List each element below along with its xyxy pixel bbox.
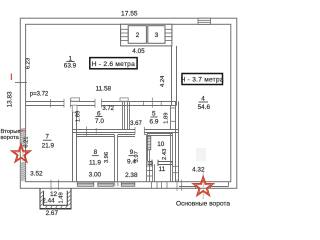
room7 right wall [72, 112, 74, 182]
svg-text:11.9: 11.9 [89, 159, 101, 166]
door jamb ticks W1 [51, 98, 162, 108]
svg-text:2.38: 2.38 [125, 172, 138, 179]
wall W2 rooms 5-6 bottom [73, 130, 179, 133]
svg-text:3.96: 3.96 [104, 152, 110, 163]
room 8 walls [76, 135, 118, 182]
window bottom 3 [121, 182, 135, 186]
witness line through main gate star [202, 172, 204, 199]
room 9 walls [118, 135, 150, 182]
gate ledge bottom wall [179, 182, 229, 189]
svg-text:1.89: 1.89 [76, 111, 82, 122]
svg-text:6.21: 6.21 [23, 136, 29, 147]
svg-text:8: 8 [94, 149, 98, 156]
dark partition left of room 10 [147, 136, 150, 150]
height label box room 1 [90, 58, 137, 69]
svg-text:3.00: 3.00 [89, 171, 102, 178]
room 11 left wall [154, 164, 156, 182]
svg-text:3.97: 3.97 [134, 151, 140, 162]
ghost rectangle room 4 [196, 148, 206, 162]
door jamb ticks W2 [87, 127, 145, 136]
svg-text:2: 2 [136, 32, 140, 39]
wall W1 horizontal [26, 102, 177, 106]
svg-text:3.72: 3.72 [102, 106, 114, 112]
annex hatch [40, 191, 71, 209]
pilaster up at x124 [120, 98, 128, 101]
window bottom 1 [77, 182, 94, 186]
svg-text:Основные ворота: Основные ворота [176, 201, 230, 208]
stairs right of room 3 [165, 29, 172, 40]
room 3 box [148, 26, 165, 44]
wall between room5 area and room4 lower [175, 101, 177, 182]
wall between rooms 10 and 11 [148, 160, 173, 166]
svg-text:7.0: 7.0 [95, 118, 104, 125]
svg-text:3: 3 [155, 32, 159, 39]
room 10 walls [147, 133, 172, 182]
svg-text:10: 10 [157, 141, 165, 148]
svg-text:ворота: ворота [1, 135, 20, 141]
inner wall face [26, 24, 231, 181]
svg-text:63.9: 63.9 [64, 63, 77, 70]
svg-text:11.58: 11.58 [96, 86, 112, 93]
svg-text:Вторые: Вторые [1, 129, 21, 135]
room 5 right wall [170, 106, 172, 130]
svg-text:1.49: 1.49 [58, 192, 64, 203]
stairs left of room 2 [121, 29, 129, 40]
svg-text:11: 11 [159, 166, 166, 173]
svg-text:3.67: 3.67 [130, 121, 142, 127]
window bottom 2 [98, 182, 114, 186]
room 6 right wall [122, 101, 124, 129]
svg-text:17.55: 17.55 [121, 10, 138, 17]
svg-text:6.23: 6.23 [26, 58, 32, 69]
svg-text:4.05: 4.05 [132, 48, 145, 55]
annex room 12 walls [40, 188, 71, 209]
gate ledge line left wall [22, 147, 24, 162]
second gate label [18, 130, 26, 132]
room 5 left wall [127, 101, 129, 129]
outer wall face [20, 18, 237, 188]
svg-text:1.89: 1.89 [164, 113, 170, 124]
porch cells below room 11 [115, 182, 167, 189]
svg-text:6.9: 6.9 [150, 119, 159, 126]
stairs shaft between rooms 9 and 11 [147, 161, 153, 181]
left wall hatch upper [21, 128, 25, 146]
tick left wall y82 [15, 82, 27, 84]
pilaster up at x75 [71, 98, 80, 101]
svg-text:7: 7 [45, 134, 49, 141]
annex door ticks on bottom wall [51, 180, 59, 191]
wall between room1 and room4 upper [171, 46, 173, 105]
pilaster down room7 wall head [72, 105, 77, 112]
height label box room 4 [182, 74, 223, 85]
svg-text:5: 5 [152, 111, 156, 118]
left wall hatch lower [21, 162, 25, 182]
window top wall [198, 18, 211, 24]
svg-text:p=3.72: p=3.72 [30, 91, 49, 97]
svg-text:4.24: 4.24 [160, 75, 166, 87]
svg-text:21.9: 21.9 [42, 143, 55, 150]
svg-text:54.6: 54.6 [198, 104, 211, 111]
red tick left of wall [10, 74, 12, 81]
rooms 2-3 block outer [121, 24, 172, 46]
svg-text:2.67: 2.67 [46, 210, 59, 217]
svg-text:3.52: 3.52 [30, 171, 43, 178]
room 2 box [128, 26, 146, 44]
second gate star [11, 144, 31, 163]
svg-text:13.83: 13.83 [7, 91, 14, 107]
svg-text:Н - 2.6 метра: Н - 2.6 метра [92, 61, 135, 68]
svg-text:2.43: 2.43 [162, 149, 168, 160]
main gate star [193, 176, 214, 196]
corridor jamb ticks right of room 11 [171, 162, 178, 172]
svg-text:2.44: 2.44 [42, 198, 55, 205]
svg-text:Н - 3.7 метра: Н - 3.7 метра [181, 76, 224, 83]
door jamb ticks bottom wall right [177, 180, 182, 191]
